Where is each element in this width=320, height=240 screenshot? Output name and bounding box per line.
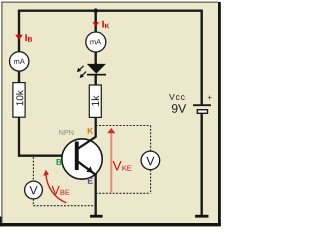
frame shadow right [218,2,221,226]
arrow VBE curved [46,174,66,203]
resistor value 10k [16,90,23,105]
dashed probe voltmeter down [32,199,34,206]
battery positive plate [193,104,211,106]
transistor emitter diagonal [78,161,96,175]
wire ammeter to LED [94,52,96,65]
label 9V [172,104,186,113]
ammeter mA (collector branch) [86,32,106,52]
dashed probe base to voltmeter [32,157,34,181]
label VKE letter V [113,161,122,170]
label IB letter I [25,34,26,41]
label VKE subscript KE [122,165,131,170]
frame faint left line [1,2,2,224]
wire top rail [19,9,203,11]
LED light arrow 2 [80,72,87,78]
LED light arrow 1 [77,66,84,72]
label Vcc [169,94,185,100]
label B base [56,159,61,165]
dashed probe bottom edge (node E) [96,192,151,194]
frame shadow bottom [0,223,221,226]
voltmeter V (VBE) [25,181,43,199]
ground bar battery [195,215,208,218]
LED D1 triangle [87,64,106,74]
frame shadow left bottom corner [0,217,2,227]
label K collector [88,128,93,134]
ammeter mA text (base branch) [14,59,25,64]
dashed probe top edge (node K) [96,125,151,127]
node junction dot K-branch [93,8,98,13]
label + battery positive [208,96,212,100]
transistor emitter arrowhead [86,166,93,172]
label NPN [59,130,73,135]
frame faint top line [1,2,218,3]
label VBE letter V [52,186,60,195]
wire LED to resistor 1k [94,75,96,85]
wire emitter to ground bar [95,174,97,216]
transistor base bar [75,142,79,171]
wire resistor to base [19,117,76,156]
resistor value 1k [91,96,99,106]
label IB subscript B [28,37,32,42]
transistor collector diagonal [78,137,96,149]
dashed probe right edge [150,126,152,194]
resistor 1k [89,85,101,117]
wire left branch down to ammeter [18,10,20,53]
resistor 10k [13,83,25,118]
label IK letter I [102,21,103,28]
ground bar emitter [90,215,103,218]
ammeter mA (base branch) [10,52,29,71]
voltmeter V (VKE) [141,151,160,170]
label E emitter [88,178,93,184]
wire middle branch down to ammeter [94,11,96,33]
wire right branch down to battery [200,11,202,105]
label VBE subscript BE [61,190,70,195]
arrow IK current direction [93,22,100,26]
wire ammeter to resistor R1 [18,71,20,83]
LED cathode bar [87,74,106,76]
dashed probe to emitter wire [33,205,95,207]
label IK subscript K [105,24,109,29]
transistor Q1 body [62,139,102,179]
battery negative plate [197,110,207,114]
wire battery to ground bar [200,114,202,216]
voltmeter V text (VBE meter) [30,186,38,194]
wire 1k to collector node K [95,117,97,137]
arrow IB current direction [15,35,23,40]
voltmeter V text (VKE meter) [146,157,154,165]
ammeter mA text (collector branch) [90,39,101,44]
arrow VKE (collector-emitter voltage) [110,132,112,193]
